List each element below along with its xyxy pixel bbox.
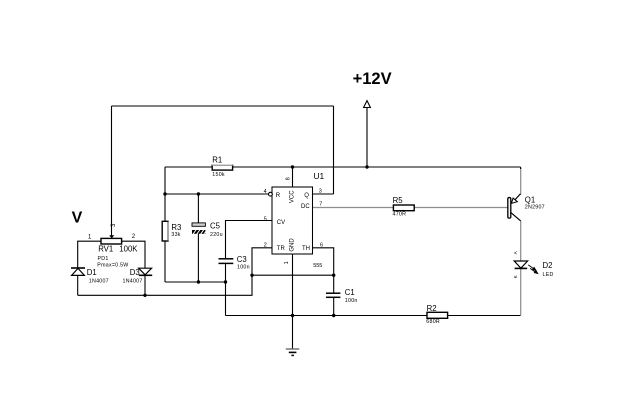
svg-text:CV: CV	[277, 220, 285, 226]
svg-text:D1: D1	[87, 268, 97, 277]
svg-text:150k: 150k	[212, 172, 225, 178]
svg-text:D2: D2	[543, 261, 553, 270]
svg-text:2N2907: 2N2907	[525, 205, 545, 211]
svg-text:1N4007: 1N4007	[89, 279, 109, 285]
svg-text:7: 7	[319, 202, 322, 208]
svg-text:DC: DC	[301, 204, 310, 210]
svg-text:680R: 680R	[426, 319, 440, 325]
svg-text:4: 4	[264, 189, 267, 195]
svg-text:6: 6	[320, 242, 323, 248]
svg-text:C1: C1	[345, 288, 355, 297]
svg-text:GND: GND	[289, 238, 295, 252]
svg-text:C3: C3	[237, 255, 247, 264]
svg-text:2: 2	[264, 242, 267, 248]
svg-text:V: V	[72, 210, 83, 227]
svg-text:100n: 100n	[345, 298, 358, 304]
svg-text:K: K	[513, 275, 518, 278]
svg-text:R1: R1	[212, 155, 222, 164]
svg-text:555: 555	[313, 263, 322, 269]
svg-text:TH: TH	[302, 246, 310, 252]
svg-text:PD1: PD1	[98, 256, 109, 262]
svg-text:100K: 100K	[119, 245, 138, 254]
svg-text:C5: C5	[210, 222, 221, 231]
svg-text:TR: TR	[277, 246, 286, 252]
svg-text:R2: R2	[427, 304, 437, 313]
svg-text:R5: R5	[393, 196, 404, 205]
svg-text:33k: 33k	[171, 232, 180, 238]
svg-text:D3: D3	[130, 268, 140, 277]
svg-text:A: A	[513, 251, 518, 254]
svg-text:+12V: +12V	[353, 70, 392, 88]
svg-text:RV1: RV1	[98, 245, 113, 254]
svg-text:R: R	[276, 193, 281, 199]
svg-text:LED: LED	[543, 272, 554, 278]
svg-text:470R: 470R	[393, 212, 407, 218]
svg-text:100n: 100n	[237, 265, 250, 271]
svg-text:Pmax=0.5W: Pmax=0.5W	[97, 262, 128, 268]
svg-text:1N4007: 1N4007	[123, 279, 143, 285]
svg-text:U1: U1	[314, 171, 325, 181]
svg-text:8: 8	[285, 177, 291, 180]
svg-text:Q1: Q1	[525, 195, 535, 204]
svg-text:5: 5	[264, 216, 267, 222]
svg-text:Q: Q	[304, 193, 309, 199]
svg-text:VCC: VCC	[289, 190, 295, 203]
svg-text:3: 3	[319, 189, 322, 195]
svg-text:220u: 220u	[210, 232, 223, 238]
svg-text:1: 1	[284, 261, 290, 264]
